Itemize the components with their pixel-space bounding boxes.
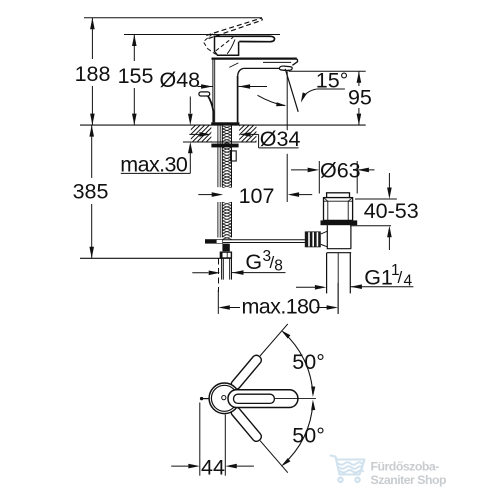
svg-text:40-53: 40-53 <box>364 199 419 223</box>
max.180 extension lines <box>217 290 219 314</box>
aerator <box>279 66 292 70</box>
svg-text:95: 95 <box>348 86 372 110</box>
angle arc left <box>258 95 286 105</box>
drain centerline <box>337 253 339 314</box>
angle arc lower <box>283 403 313 464</box>
fitting block on shank <box>231 151 237 161</box>
handle rotated outline (dashed) <box>205 34 213 41</box>
knob boss <box>321 231 327 234</box>
wire lever-top extension line (155 ref) <box>124 34 280 36</box>
50 deg diagonal upper <box>260 324 288 356</box>
dimension 44 <box>171 465 188 467</box>
svg-text:max.30: max.30 <box>120 152 188 176</box>
svg-text:Ø34: Ø34 <box>260 127 301 151</box>
label max.30 with leader <box>121 172 191 174</box>
faucet lever raised position (dashed) <box>206 18 261 35</box>
svg-text:Fürdőszoba-: Fürdőszoba- <box>371 459 440 473</box>
svg-text:50°: 50° <box>292 350 325 374</box>
pull rod below deck (lower) <box>217 202 219 238</box>
top view: centerline right <box>275 398 316 400</box>
top view: center detail <box>222 396 226 400</box>
label Ø34 with callout bracket <box>258 134 260 148</box>
watermark cart icon <box>331 456 365 482</box>
svg-text:Ø63: Ø63 <box>320 158 361 182</box>
svg-text:G1: G1 <box>364 266 393 290</box>
dimension max.30 arrows <box>189 97 191 114</box>
extension line aerator level <box>289 70 366 72</box>
pull rod curve <box>208 96 214 123</box>
dimension 188 vertical line <box>91 18 93 59</box>
body left edge (double line) <box>212 59 214 123</box>
svg-text:Ø48: Ø48 <box>160 68 201 92</box>
drain lower body <box>326 225 328 249</box>
40-53 extension lines <box>355 198 397 200</box>
aerator centerline (vertical reference) <box>286 71 288 130</box>
top view: lever at +50 deg <box>229 354 263 391</box>
deck hatching right panel <box>223 125 281 142</box>
drain tailpipe <box>326 253 328 294</box>
wire deck-top reference line <box>80 124 366 126</box>
body right edge <box>237 76 239 123</box>
angle arc upper <box>283 332 313 393</box>
dimension G1 1/4 arrows + label <box>296 286 315 288</box>
top view: horizontal lever <box>228 390 298 408</box>
drain pop-up cap <box>327 193 350 198</box>
wire hose-end extension line (385 bottom ref) <box>80 257 232 259</box>
44 extension lines <box>199 403 201 476</box>
supply hose <box>221 258 223 279</box>
dimension Ø34 arrows <box>189 133 199 135</box>
svg-text:107: 107 <box>239 184 275 208</box>
dimension 385 vertical line <box>91 125 93 178</box>
wire top extension line (raised lever height) <box>84 17 262 19</box>
svg-text:188: 188 <box>75 62 111 86</box>
dimension 107 <box>198 194 212 196</box>
svg-text:8: 8 <box>274 257 283 274</box>
top view: pull rod stub <box>201 398 210 400</box>
mounting nut under deck <box>211 144 238 148</box>
dimension 40-53 arrows <box>388 173 390 188</box>
svg-text:/: / <box>398 268 403 287</box>
drain gasket (black) <box>321 220 358 225</box>
top view: lever at -50 deg <box>229 406 263 443</box>
svg-text:G: G <box>245 250 262 274</box>
dimension 95 vertical line <box>358 71 360 86</box>
label 15° leader <box>317 88 345 90</box>
dimension Ø48 arrows <box>198 86 213 88</box>
faucet centerline (dashed) <box>218 259 220 293</box>
G3/8 connection nut <box>220 252 232 259</box>
knurled knob <box>305 231 321 247</box>
svg-text:155: 155 <box>118 64 154 88</box>
faucet body top / spout top edge <box>212 57 297 59</box>
dimension G3/8 arrows + label <box>192 272 208 274</box>
svg-text:Szaniter Shop: Szaniter Shop <box>371 473 447 487</box>
body shoulder curve <box>229 63 238 68</box>
horizontal pop-up rod <box>223 239 305 241</box>
svg-text:385: 385 <box>73 180 109 204</box>
faucet handle block <box>215 37 239 56</box>
svg-text:max.180: max.180 <box>242 295 321 319</box>
svg-text:44: 44 <box>201 455 225 479</box>
spout underside <box>244 67 280 69</box>
threaded shank upper segment <box>221 126 223 188</box>
svg-text:50°: 50° <box>292 423 325 447</box>
spout tip bevel <box>292 59 297 65</box>
faucet base plate <box>211 122 239 125</box>
dimension 155 vertical line <box>133 35 135 62</box>
top view: body circle <box>209 383 240 414</box>
drain pull knob <box>199 92 210 96</box>
threaded shank lower segment <box>221 202 223 237</box>
rod connector <box>205 239 223 243</box>
drain joint nut <box>327 248 351 250</box>
pull rod below deck (upper) <box>217 123 219 188</box>
deck hatching left panel <box>174 125 237 142</box>
drain Ø63 extension lines <box>318 161 320 194</box>
dimension max.180 <box>229 307 240 309</box>
faucet lever (solid, horizontal) <box>213 36 274 42</box>
svg-text:4: 4 <box>404 273 413 290</box>
drain flange body <box>324 198 353 221</box>
deck bottom line <box>183 141 257 143</box>
50 deg diagonal lower <box>260 441 288 473</box>
svg-text:15°: 15° <box>316 69 349 93</box>
dimension Ø63 arrows <box>291 169 308 171</box>
water stream line (15 deg) <box>285 69 298 112</box>
